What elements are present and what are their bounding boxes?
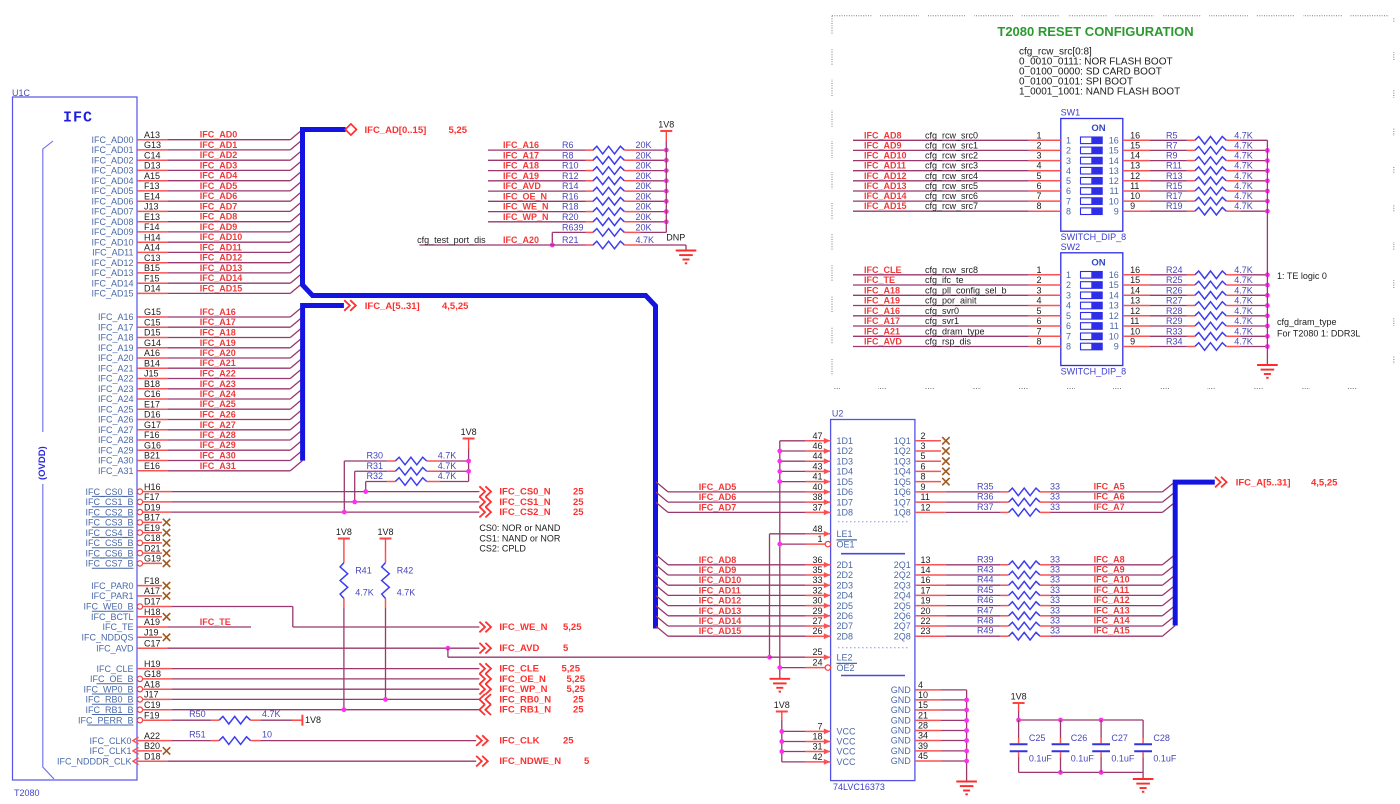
svg-text:C13: C13 [144, 253, 161, 263]
no-connect 1Q5 pin 8 [915, 481, 941, 483]
wire 1D2 tie [780, 450, 805, 452]
svg-text:DNP: DNP [666, 233, 685, 243]
svg-text:IFC_AD4: IFC_AD4 [200, 171, 238, 181]
svg-text:T2080: T2080 [14, 788, 40, 798]
svg-text:25: 25 [573, 705, 584, 716]
wire net IFC_AD3 [137, 169, 168, 171]
svg-text:IFC_AD[0..15]: IFC_AD[0..15] [365, 125, 427, 136]
svg-text:IFC_PAR1: IFC_PAR1 [91, 591, 133, 601]
svg-text:C27: C27 [1111, 733, 1128, 743]
svg-text:20K: 20K [636, 222, 652, 232]
resistor R28 4.7K [1187, 315, 1195, 317]
svg-text:4.7K: 4.7K [1234, 306, 1253, 316]
wire R51 to IFC_CLK port [260, 740, 476, 742]
no-connect stub IFC_PAR1 [137, 595, 162, 597]
SW2 element 3/14 [1081, 292, 1103, 299]
svg-text:IFC_AD05: IFC_AD05 [91, 186, 133, 196]
svg-text:11: 11 [1130, 316, 1139, 326]
svg-text:2D7: 2D7 [837, 621, 854, 631]
svg-text:25: 25 [812, 647, 822, 657]
wire net IFC_A26 [137, 419, 168, 421]
wire net IFC_AD5 [137, 190, 168, 192]
svg-text:A16: A16 [144, 348, 160, 358]
svg-text:SWITCH_DIP_8: SWITCH_DIP_8 [1061, 366, 1127, 376]
svg-text:GND: GND [891, 736, 912, 746]
wire net IFC_AD14 [137, 282, 168, 284]
no-connect stub IFC_CS5_B [143, 542, 162, 544]
svg-text:23: 23 [921, 626, 931, 636]
svg-text:20K: 20K [636, 140, 652, 150]
svg-text:46: 46 [812, 441, 822, 451]
svg-text:2D6: 2D6 [837, 611, 854, 621]
port arrow IFC_AVD [479, 643, 491, 654]
cap bottom rail [1019, 771, 1144, 773]
svg-text:3: 3 [1036, 151, 1041, 161]
junction R6 rail [664, 148, 669, 153]
svg-text:cfg_ifc_te: cfg_ifc_te [925, 275, 964, 285]
svg-text:8: 8 [1036, 337, 1041, 347]
svg-text:C26: C26 [1071, 733, 1088, 743]
svg-text:33: 33 [1050, 554, 1060, 564]
wire net IFC_OE_N [143, 678, 172, 680]
wire net IFC_A11 to bus [1051, 594, 1163, 596]
resistor R49 33 [1001, 635, 1009, 637]
svg-text:IFC_CS2_N: IFC_CS2_N [499, 507, 550, 518]
svg-text:1D5: 1D5 [837, 477, 854, 487]
junction pull rail [1265, 209, 1270, 214]
svg-text:0.1uF: 0.1uF [1071, 754, 1095, 764]
svg-text:1D4: 1D4 [837, 467, 854, 477]
svg-text:A18: A18 [144, 679, 160, 689]
svg-text:IFC_NDDDR_CLK: IFC_NDDDR_CLK [57, 756, 132, 766]
svg-text:33: 33 [812, 575, 822, 585]
svg-text:J19: J19 [144, 628, 159, 638]
ground (R21) [676, 251, 697, 264]
svg-text:C25: C25 [1029, 733, 1046, 743]
svg-text:R30: R30 [367, 451, 384, 461]
VCC rail [781, 720, 783, 762]
svg-text:4.7K: 4.7K [1234, 151, 1253, 161]
pull-down rail SW1/SW2 [1266, 140, 1268, 365]
svg-text:12: 12 [921, 502, 931, 512]
resistor R10 20K pull-up on IFC_A18 [488, 170, 586, 172]
svg-text:D14: D14 [144, 284, 161, 294]
svg-text:T2080 RESET CONFIGURATION: T2080 RESET CONFIGURATION [997, 24, 1193, 39]
svg-text:IFC_A17: IFC_A17 [200, 317, 236, 327]
svg-text:20: 20 [921, 606, 931, 616]
svg-text:C15: C15 [144, 317, 161, 327]
wire 1D3 tie [780, 460, 805, 462]
U2 section separators [838, 521, 908, 523]
svg-text:A22: A22 [144, 731, 160, 741]
svg-text:R45: R45 [977, 585, 994, 595]
port arrow IFC_WE_N [479, 622, 491, 633]
SW1 element 6/11 [1081, 188, 1103, 195]
svg-text:16: 16 [1130, 130, 1140, 140]
wire 2Q4 pin 17 [915, 594, 946, 596]
svg-text:cfg_dram_type: cfg_dram_type [1277, 317, 1337, 327]
svg-text:IFC_A21: IFC_A21 [200, 358, 236, 368]
resistor R43 33 [1001, 574, 1009, 576]
svg-text:A13: A13 [144, 130, 160, 140]
svg-text:4.7K: 4.7K [1234, 140, 1253, 150]
svg-text:IFC_A29: IFC_A29 [98, 445, 134, 455]
wire net IFC_AD9 to switch pin 2 [853, 149, 1029, 151]
power-domain bracket OVDD [43, 141, 53, 432]
wire net IFC_AD13 to 2D6 [656, 606, 668, 616]
wire IFC_CLK0 to R51 [137, 740, 172, 742]
svg-text:20K: 20K [636, 202, 652, 212]
svg-text:IFC_A22: IFC_A22 [200, 369, 236, 379]
svg-text:IFC_CS0_B: IFC_CS0_B [85, 487, 133, 497]
svg-text:5: 5 [563, 643, 569, 654]
svg-text:IFC_AD11: IFC_AD11 [92, 248, 133, 258]
wire IFC_WE0_B to IFC_WE_N [143, 606, 172, 608]
resistor R5 4.7K [1187, 139, 1195, 141]
wire net IFC_A14 to bus [1051, 625, 1163, 627]
SW2 element 7/10 [1081, 333, 1103, 340]
svg-text:1V8: 1V8 [658, 120, 674, 130]
IC U2 74LVC16373 outline [831, 420, 915, 781]
no-connect 1Q3 pin 5 [915, 460, 941, 462]
svg-text:20K: 20K [636, 212, 652, 222]
svg-text:20K: 20K [636, 161, 652, 171]
svg-text:1V8: 1V8 [305, 715, 321, 725]
svg-text:R43: R43 [977, 565, 994, 575]
wire switch pin 15 to R7 [1123, 149, 1150, 151]
tie rail 1D1-1D5/OE1/OE2 (x=779.8) [779, 441, 781, 679]
svg-text:IFC_A20: IFC_A20 [98, 353, 134, 363]
svg-text:GND: GND [891, 695, 912, 705]
wire net IFC_AD13 [137, 272, 168, 274]
wire IFC_AVD to U2 latch enables [447, 648, 449, 657]
resistor R51 10 [211, 740, 219, 742]
svg-text:D21: D21 [144, 543, 161, 553]
svg-text:1V8: 1V8 [377, 527, 393, 537]
svg-text:43: 43 [812, 461, 822, 471]
wire net IFC_AD1 [137, 149, 168, 151]
svg-text:cfg_rcw_src8: cfg_rcw_src8 [925, 265, 978, 275]
svg-text:R16: R16 [562, 191, 579, 201]
wire VCC pin 31 [782, 751, 805, 753]
svg-text:IFC_AD7: IFC_AD7 [200, 201, 238, 211]
resistor R21 4.7K DNP [419, 244, 585, 246]
svg-text:B18: B18 [144, 379, 160, 389]
svg-text:R15: R15 [1166, 181, 1183, 191]
svg-text:LE1: LE1 [837, 529, 853, 539]
svg-text:1_0001_1001: NAND FLASH BOOT: 1_0001_1001: NAND FLASH BOOT [1019, 87, 1180, 98]
svg-text:IFC_AD02: IFC_AD02 [91, 155, 133, 165]
wire net IFC_A21 [137, 367, 168, 369]
svg-text:IFC_AD10: IFC_AD10 [699, 575, 742, 585]
junction pull rail [1265, 303, 1270, 308]
svg-text:7: 7 [1036, 191, 1041, 201]
svg-text:1Q2: 1Q2 [894, 446, 911, 456]
svg-text:7: 7 [817, 721, 822, 731]
svg-text:2D8: 2D8 [837, 631, 854, 641]
svg-text:IFC_A31: IFC_A31 [200, 461, 236, 471]
svg-text:R8: R8 [562, 150, 574, 160]
svg-text:1: 1 [1036, 265, 1041, 275]
svg-text:10: 10 [1130, 191, 1140, 201]
wire R32 to CS row [365, 482, 367, 492]
SW1 element 7/10 [1081, 198, 1103, 205]
svg-text:1: TE logic 0: 1: TE logic 0 [1277, 271, 1327, 281]
svg-text:IFC_RB1_B: IFC_RB1_B [85, 705, 133, 715]
svg-text:1Q3: 1Q3 [894, 456, 911, 466]
svg-text:42: 42 [812, 752, 822, 762]
svg-text:R37: R37 [977, 502, 994, 512]
svg-text:R19: R19 [1166, 201, 1183, 211]
wire net IFC_A19 [137, 347, 168, 349]
svg-text:IFC_AD12: IFC_AD12 [200, 253, 243, 263]
svg-text:IFC_A16: IFC_A16 [503, 140, 539, 150]
svg-text:27: 27 [812, 616, 822, 626]
wire net IFC_A10 to bus [1051, 584, 1163, 586]
svg-text:4: 4 [1036, 161, 1041, 171]
svg-text:IFC_AVD: IFC_AVD [96, 643, 134, 653]
svg-text:IFC_CS2_B: IFC_CS2_B [85, 507, 133, 517]
svg-text:R48: R48 [977, 616, 994, 626]
svg-text:26: 26 [812, 626, 822, 636]
port arrow IFC_OE_N [479, 674, 491, 685]
svg-text:10: 10 [1130, 326, 1140, 336]
wire net IFC_AD15 [137, 292, 168, 294]
svg-text:F17: F17 [144, 492, 160, 502]
wire net IFC_TE to switch pin 2 [853, 284, 1029, 286]
svg-text:IFC_CLE: IFC_CLE [864, 265, 902, 275]
wire IFC_WE_N to port [293, 626, 480, 628]
svg-text:11: 11 [1130, 181, 1139, 191]
svg-text:B17: B17 [144, 513, 160, 523]
wire net IFC_CS2_N [143, 511, 172, 513]
svg-text:IFC_A14: IFC_A14 [1094, 616, 1130, 626]
svg-text:R20: R20 [562, 212, 579, 222]
svg-text:IFC_A21: IFC_A21 [98, 363, 134, 373]
no-connect 1Q4 pin 6 [915, 470, 941, 472]
svg-text:IFC_CLK: IFC_CLK [499, 736, 539, 747]
svg-text:IFC_A17: IFC_A17 [98, 322, 134, 332]
wire net IFC_AD11 to switch pin 4 [853, 170, 1029, 172]
svg-text:R6: R6 [562, 140, 574, 150]
wire net IFC_CLE [137, 668, 172, 670]
resistor R7 4.7K [1187, 149, 1195, 151]
svg-text:IFC_A30: IFC_A30 [98, 456, 134, 466]
bus port arrow IFC_A[5..31] right [1215, 477, 1227, 488]
svg-text:39: 39 [918, 741, 928, 751]
svg-text:IFC_AD5: IFC_AD5 [200, 181, 238, 191]
svg-text:IFC_AD01: IFC_AD01 [91, 145, 133, 155]
svg-text:IFC_CS4_B: IFC_CS4_B [85, 528, 133, 538]
power symbol 1V8 (decoupling) [1013, 702, 1025, 704]
svg-text:IFC_A16: IFC_A16 [98, 312, 134, 322]
svg-text:cfg_rcw_src1: cfg_rcw_src1 [925, 140, 978, 150]
resistor R33 4.7K [1187, 335, 1195, 337]
svg-text:R39: R39 [977, 554, 994, 564]
resistor R24 4.7K [1187, 274, 1195, 276]
junction pull rail [1265, 313, 1270, 318]
svg-text:R25: R25 [1166, 275, 1183, 285]
svg-text:F13: F13 [144, 181, 160, 191]
svg-text:IFC_AD6: IFC_AD6 [200, 191, 238, 201]
wire net IFC_AD15 to 2D8 [656, 626, 668, 636]
svg-text:IFC_CS1_B: IFC_CS1_B [85, 497, 133, 507]
svg-text:6: 6 [921, 461, 926, 471]
svg-text:2: 2 [1036, 140, 1041, 150]
svg-text:2: 2 [1066, 146, 1071, 156]
svg-text:IFC_AD0: IFC_AD0 [200, 130, 238, 140]
svg-text:5: 5 [1066, 176, 1071, 186]
svg-text:R27: R27 [1166, 296, 1183, 306]
svg-text:41: 41 [812, 472, 822, 482]
svg-text:cfg_dram_type: cfg_dram_type [925, 326, 985, 336]
capacitor C25 0.1uF [1018, 720, 1020, 738]
svg-text:1V8: 1V8 [461, 427, 477, 437]
svg-text:1Q1: 1Q1 [894, 436, 911, 446]
wire net IFC_A12 to bus [1051, 605, 1163, 607]
resistor R13 4.7K [1187, 180, 1195, 182]
svg-text:IFC_AD10: IFC_AD10 [91, 237, 133, 247]
wire switch pin 11 to R15 [1123, 190, 1150, 192]
wire net IFC_A31 [137, 470, 168, 472]
wire net IFC_A9 to bus [1051, 574, 1163, 576]
svg-text:8: 8 [1036, 201, 1041, 211]
svg-text:IFC_AD2: IFC_AD2 [200, 150, 238, 160]
wire GND pin 15 [915, 709, 941, 711]
svg-text:4.7K: 4.7K [1234, 326, 1253, 336]
svg-text:IFC_WP_N: IFC_WP_N [503, 212, 549, 222]
port arrow IFC_CLK [476, 735, 488, 746]
IC block U1C outline [13, 97, 138, 780]
wire net IFC_A20 [137, 357, 168, 359]
svg-text:38: 38 [812, 492, 822, 502]
svg-text:IFC_A19: IFC_A19 [864, 296, 900, 306]
svg-text:D16: D16 [144, 410, 161, 420]
svg-text:SW1: SW1 [1061, 108, 1081, 118]
SW2 element 8/9 [1081, 343, 1103, 350]
svg-text:A17: A17 [144, 586, 160, 596]
wire switch pin 9 to R34 [1123, 346, 1150, 348]
svg-text:4: 4 [1066, 301, 1071, 311]
svg-text:4.7K: 4.7K [1234, 316, 1253, 326]
wire net IFC_AD5 to 1D6 [656, 482, 668, 492]
svg-text:2Q7: 2Q7 [894, 621, 911, 631]
svg-text:G13: G13 [144, 140, 161, 150]
svg-text:3: 3 [1066, 156, 1071, 166]
svg-text:4.7K: 4.7K [1234, 130, 1253, 140]
svg-text:4.7K: 4.7K [438, 451, 457, 461]
svg-text:47: 47 [812, 431, 822, 441]
svg-text:IFC_CLE: IFC_CLE [96, 664, 133, 674]
svg-text:IFC_A12: IFC_A12 [1094, 595, 1130, 605]
power symbol 1V8 (R30 rail) [463, 438, 475, 440]
svg-text:16: 16 [1109, 136, 1119, 146]
no-connect stub IFC_CS7_B [143, 562, 162, 564]
svg-text:4: 4 [1066, 166, 1071, 176]
svg-text:4.7K: 4.7K [438, 471, 457, 481]
svg-text:B14: B14 [144, 358, 160, 368]
wire 2Q8 pin 23 [915, 635, 946, 637]
port arrow IFC_CS1_N [479, 497, 491, 508]
svg-text:IFC_A18: IFC_A18 [503, 161, 539, 171]
wire net IFC_AD6 to 1D7 [656, 492, 668, 502]
svg-text:2Q2: 2Q2 [894, 570, 911, 580]
svg-text:45: 45 [918, 751, 928, 761]
svg-text:IFC_A31: IFC_A31 [98, 466, 134, 476]
no-connect stub IFC_CS4_B [143, 532, 162, 534]
svg-text:cfg_svr0: cfg_svr0 [925, 306, 959, 316]
svg-text:VCC: VCC [837, 737, 857, 747]
svg-text:13: 13 [921, 555, 931, 565]
svg-text:U2: U2 [832, 409, 844, 419]
svg-text:R34: R34 [1166, 337, 1183, 347]
svg-text:A14: A14 [144, 243, 160, 253]
svg-text:IFC_AD12: IFC_AD12 [699, 596, 742, 606]
svg-text:IFC_CS5_B: IFC_CS5_B [85, 538, 133, 548]
junction R12 rail [664, 178, 669, 183]
wire switch pin 14 to R9 [1123, 160, 1150, 162]
svg-text:D17: D17 [144, 597, 161, 607]
svg-text:30: 30 [812, 596, 822, 606]
svg-text:H19: H19 [144, 659, 161, 669]
svg-text:35: 35 [812, 565, 822, 575]
resistor R30 4.7K [344, 460, 387, 462]
svg-text:IFC_AD9: IFC_AD9 [699, 565, 737, 575]
GND rail (U2) [966, 690, 968, 782]
wire net IFC_A19 to switch pin 4 [853, 305, 1029, 307]
wire 1D1 tie [780, 440, 805, 442]
resistor R639 20K [552, 231, 585, 233]
junction pull rail [1265, 148, 1270, 153]
svg-text:IFC_A19: IFC_A19 [200, 338, 236, 348]
svg-text:IFC_A27: IFC_A27 [98, 425, 134, 435]
svg-text:E16: E16 [144, 461, 160, 471]
svg-text:IFC_AD10: IFC_AD10 [864, 151, 907, 161]
svg-text:C18: C18 [144, 533, 161, 543]
svg-text:IFC_AD15: IFC_AD15 [200, 283, 243, 293]
svg-text:6: 6 [1066, 186, 1071, 196]
wire GND pin 4 [915, 689, 941, 691]
capacitor C27 0.1uF [1100, 720, 1102, 738]
svg-text:GND: GND [891, 756, 912, 766]
svg-text:GND: GND [891, 726, 912, 736]
wire net IFC_AD11 [137, 251, 168, 253]
svg-text:R21: R21 [562, 235, 579, 245]
wire GND pin 39 [915, 750, 941, 752]
svg-text:25: 25 [563, 736, 574, 747]
svg-text:24: 24 [812, 658, 822, 668]
svg-text:10: 10 [918, 690, 928, 700]
svg-text:40: 40 [812, 482, 822, 492]
svg-text:IFC_WE_N: IFC_WE_N [499, 622, 547, 633]
wire net IFC_A16 [137, 316, 168, 318]
svg-text:IFC_AD08: IFC_AD08 [91, 217, 133, 227]
svg-text:1D6: 1D6 [837, 487, 854, 497]
svg-text:IFC_AVD: IFC_AVD [499, 643, 539, 654]
svg-text:1Q5: 1Q5 [894, 477, 911, 487]
svg-text:7: 7 [1036, 326, 1041, 336]
resistor R19 4.7K [1187, 210, 1195, 212]
svg-text:11: 11 [1109, 186, 1118, 196]
wire R50 to 1V8 [260, 719, 292, 721]
svg-text:IFC_WP0_B: IFC_WP0_B [83, 684, 133, 694]
wire net IFC_CS0_N [143, 491, 172, 493]
svg-text:F16: F16 [144, 430, 160, 440]
wire OE2 (pin 24) [780, 667, 805, 669]
svg-text:R51: R51 [189, 730, 206, 740]
svg-text:IFC_OE_B: IFC_OE_B [90, 674, 134, 684]
junction pull rail [1265, 178, 1270, 183]
